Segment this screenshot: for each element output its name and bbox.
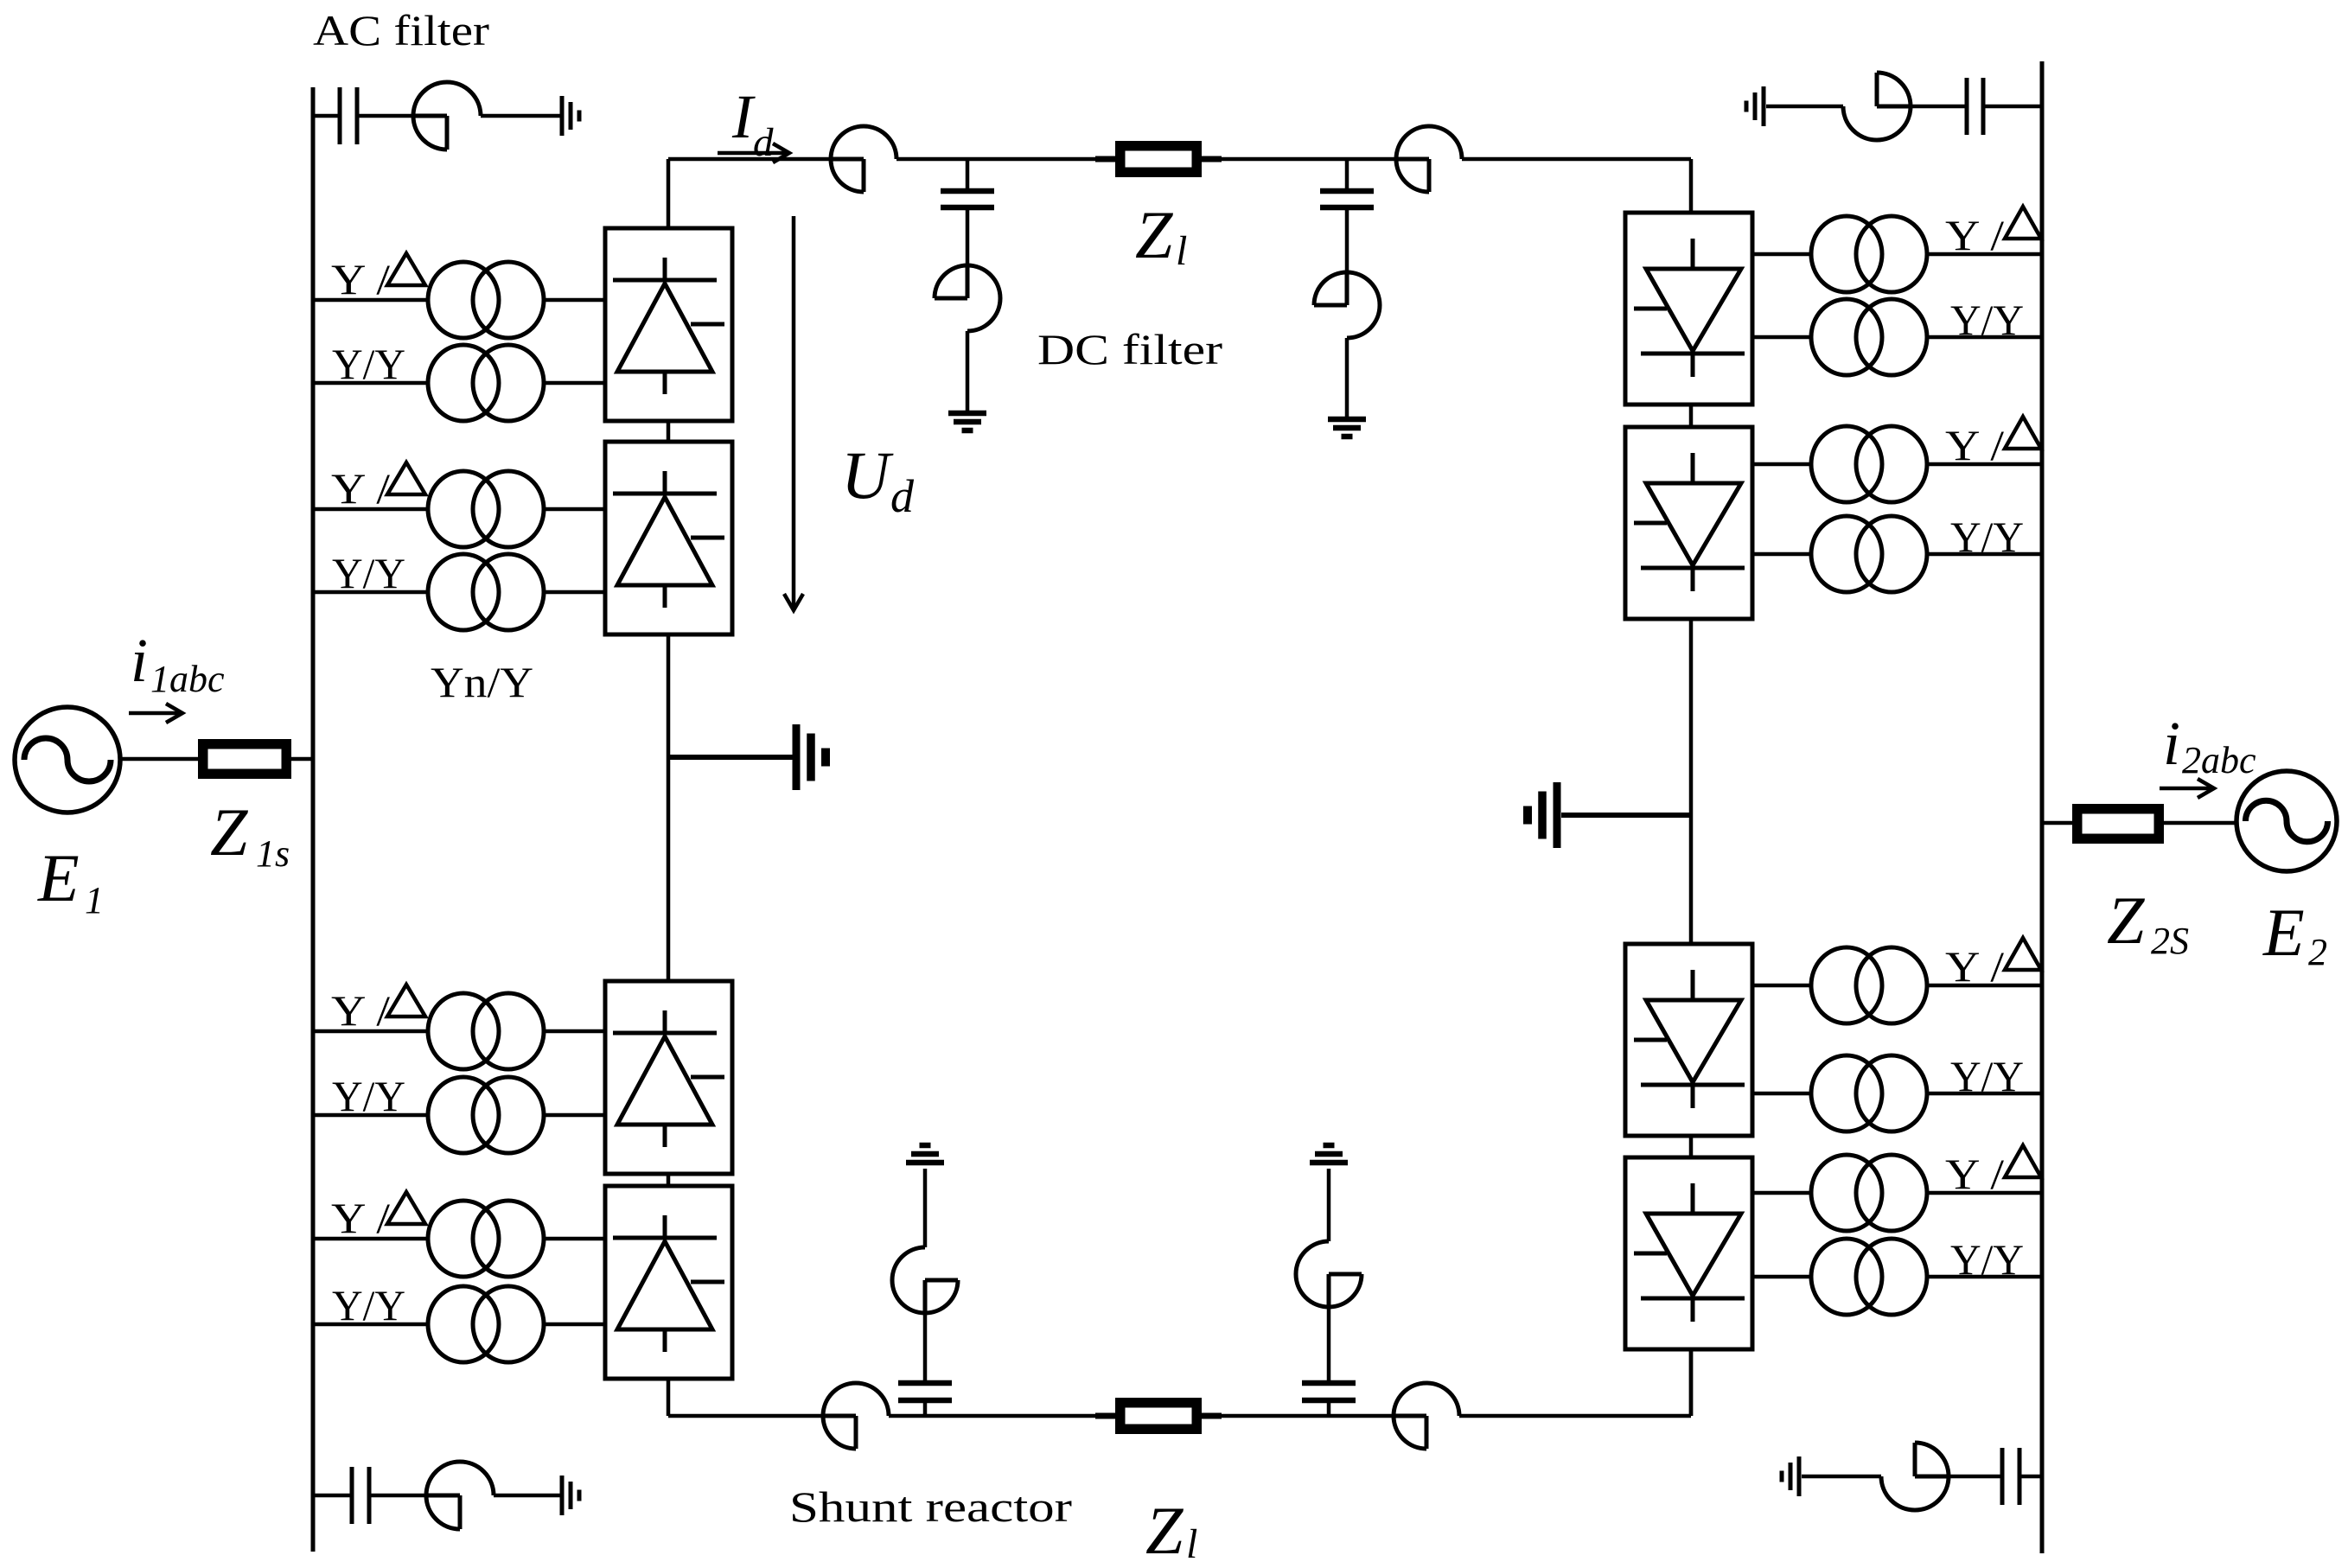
- svg-text:1abc: 1abc: [150, 658, 225, 700]
- svg-text:E: E: [2262, 895, 2305, 970]
- svg-text:Shunt reactor: Shunt reactor: [789, 1482, 1072, 1531]
- svg-text:Z: Z: [210, 794, 249, 870]
- svg-text:Y/Y: Y/Y: [1950, 1052, 2024, 1100]
- svg-text:E: E: [37, 840, 80, 915]
- svg-text:2abc: 2abc: [2182, 739, 2256, 781]
- svg-text:Y /: Y /: [331, 464, 390, 513]
- svg-text:i: i: [2163, 709, 2180, 778]
- svg-text:Y/Y: Y/Y: [1950, 296, 2024, 344]
- svg-text:Z: Z: [2107, 883, 2146, 958]
- svg-text:l: l: [1176, 228, 1187, 274]
- svg-text:2: 2: [2308, 931, 2327, 973]
- svg-text:Z: Z: [1145, 1493, 1184, 1568]
- svg-text:Y/Y: Y/Y: [332, 549, 405, 597]
- svg-text:DC filter: DC filter: [1037, 325, 1222, 373]
- svg-text:Y/Y: Y/Y: [332, 340, 405, 388]
- svg-text:Y/Y: Y/Y: [332, 1072, 405, 1120]
- svg-text:Y /: Y /: [331, 986, 390, 1035]
- svg-text:Y/Y: Y/Y: [1950, 1235, 2024, 1284]
- svg-text:Y /: Y /: [1945, 211, 2004, 259]
- svg-text:d: d: [890, 470, 915, 522]
- svg-text:d: d: [753, 120, 774, 165]
- svg-text:Y /: Y /: [331, 1194, 390, 1242]
- svg-text:1s: 1s: [256, 832, 290, 875]
- svg-text:2S: 2S: [2151, 920, 2189, 962]
- svg-text:Y/Y: Y/Y: [1950, 513, 2024, 561]
- svg-text:I: I: [731, 82, 756, 151]
- svg-text:AC filter: AC filter: [313, 6, 489, 54]
- svg-text:Z: Z: [1135, 197, 1174, 272]
- svg-text:Yn/Y: Yn/Y: [431, 658, 533, 706]
- svg-text:l: l: [1186, 1521, 1197, 1567]
- svg-text:Y /: Y /: [1945, 1150, 2004, 1198]
- svg-text:Y /: Y /: [1945, 942, 2004, 991]
- svg-text:Y /: Y /: [1945, 421, 2004, 469]
- svg-text:Y/Y: Y/Y: [332, 1281, 405, 1329]
- svg-text:U: U: [841, 437, 894, 513]
- svg-text:1: 1: [85, 879, 104, 921]
- svg-text:Y /: Y /: [331, 255, 390, 303]
- svg-text:i: i: [131, 626, 148, 695]
